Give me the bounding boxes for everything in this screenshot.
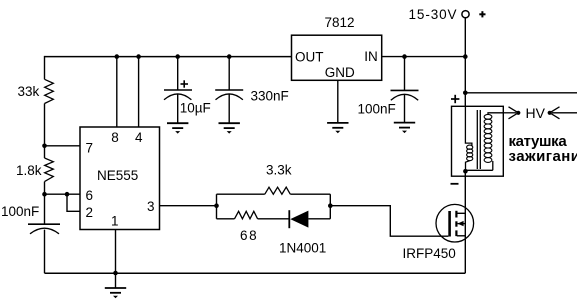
svg-text:1.8k: 1.8k	[16, 163, 42, 178]
pin 7 label	[86, 140, 94, 155]
ground (7812)	[327, 123, 348, 133]
svg-text:15-30V: 15-30V	[409, 7, 458, 22]
ground (100nF right)	[394, 123, 415, 134]
svg-text:10µF: 10µF	[180, 100, 211, 115]
transistor source link	[457, 235, 466, 237]
label 1.8k	[16, 163, 42, 178]
wire left vertical (top segment)	[44, 56, 46, 79]
transistor gate bar	[448, 211, 451, 237]
resistor R 1.8k	[45, 158, 54, 182]
HV arrow right (from edge)	[548, 107, 577, 119]
regulator U2 7812 box	[292, 35, 382, 80]
pin 2 label	[86, 205, 94, 220]
IC U1 NE555 box	[80, 127, 160, 230]
label 100nF (right)	[358, 102, 396, 117]
plus sign (supply)	[479, 11, 485, 17]
coil core lines	[477, 110, 480, 169]
label 7812	[325, 15, 355, 30]
label 33k	[18, 84, 40, 99]
svg-text:68: 68	[240, 228, 258, 243]
coil secondary top lead to HV	[488, 113, 503, 115]
wire upper branch right	[290, 193, 330, 195]
resistor R 33k	[45, 79, 54, 103]
wire parallel-network right vertical	[329, 194, 331, 219]
node pin6/left-rail junction	[42, 192, 47, 197]
wire left vertical (cap to bottom rail)	[44, 230, 46, 274]
label 10uF	[180, 100, 211, 115]
label 330nF	[251, 88, 289, 103]
svg-text:OUT: OUT	[295, 49, 324, 64]
svg-text:IN: IN	[364, 49, 378, 64]
coil primary winding	[467, 145, 473, 161]
wire left vertical (1.8k to cap)	[44, 182, 46, 225]
svg-text:3.3k: 3.3k	[266, 163, 292, 178]
wire gate path to MOSFET	[330, 206, 448, 237]
svg-text:NE555: NE555	[97, 168, 138, 183]
HV arrow left (from coil)	[503, 107, 520, 119]
svg-text:1N4001: 1N4001	[279, 240, 326, 255]
wire lower branch mid	[258, 218, 290, 220]
svg-text:3: 3	[147, 199, 155, 214]
wire left vertical (33k to pin7 node)	[44, 104, 46, 159]
transistor drain link	[457, 212, 466, 214]
svg-text:330nF: 330nF	[251, 88, 289, 103]
wire parallel-network left vertical	[216, 194, 218, 219]
svg-text:33k: 33k	[18, 84, 40, 99]
svg-text:1: 1	[111, 214, 119, 229]
node parallel-network right	[328, 203, 333, 208]
node branch junction	[463, 91, 468, 96]
node 330nF/top-rail junction	[227, 54, 232, 59]
wire NE555 pin 8 to top rail	[116, 57, 118, 127]
wire NE555 pin 4 to top rail	[138, 57, 140, 127]
node parallel-network left	[214, 203, 219, 208]
capacitor C 330nF	[215, 57, 243, 123]
node pin7/left-rail junction	[42, 144, 47, 149]
wire branch to right edge	[465, 92, 577, 94]
svg-text:100nF: 100nF	[1, 204, 39, 219]
node pin8/top-rail junction	[115, 54, 120, 59]
transistor body arrow	[457, 221, 465, 226]
node pin1/bottom-rail junction	[113, 271, 118, 276]
plus sign (coil)	[451, 95, 459, 103]
ground (330nF)	[219, 123, 240, 133]
label NE555	[97, 168, 138, 183]
label 1N4001	[279, 240, 326, 255]
ignition coil T1 box	[452, 106, 504, 176]
label 3.3k	[266, 163, 292, 178]
wire 7812 IN link	[382, 56, 466, 58]
wire lower branch left	[217, 218, 235, 220]
coil secondary winding	[484, 114, 492, 162]
wire lower branch right	[308, 218, 330, 220]
wire top rail	[45, 56, 293, 58]
node pin4/top-rail junction	[136, 54, 141, 59]
capacitor C 100nF (left, on NE555 pins 2/6)	[28, 224, 60, 234]
label GND	[325, 65, 355, 80]
label 100nF (left)	[1, 204, 39, 219]
svg-text:HV: HV	[526, 105, 546, 121]
svg-text:6: 6	[86, 188, 94, 203]
node 100nF/IN junction	[402, 54, 407, 59]
svg-text:GND: GND	[325, 65, 355, 80]
node coil bottom junction	[463, 169, 468, 174]
node IN/right-vertical junction	[463, 54, 468, 59]
wire NE555 pin 2 L-link	[67, 194, 80, 211]
svg-text:7: 7	[86, 140, 94, 155]
coil common bottom link	[466, 161, 493, 171]
node pin6/pin2 junction	[65, 192, 70, 197]
wire 7812 GND stub	[337, 80, 339, 122]
plus sign (10uF)	[181, 80, 189, 87]
transistor channel segments	[455, 211, 457, 236]
ground (10uF)	[167, 123, 188, 133]
label IRFP450	[403, 246, 456, 261]
svg-text:IRFP450: IRFP450	[403, 246, 456, 261]
transistor Q1 IRFP450 circle	[436, 204, 474, 242]
diode D 1N4001 (triangle, pointing left)	[290, 211, 308, 228]
label HV	[526, 105, 546, 121]
wire NE555 pin 7 to left rail	[45, 145, 81, 147]
pin 1 label	[111, 214, 119, 229]
wire upper branch left	[217, 193, 265, 195]
minus sign (coil)	[451, 183, 459, 185]
svg-text:2: 2	[86, 205, 94, 220]
pin 8 label	[111, 130, 119, 145]
svg-text:зажигания: зажигания	[509, 148, 577, 165]
wire coil exit to MOSFET drain	[464, 170, 466, 273]
terminal circle 15-30V	[462, 11, 469, 18]
label 68	[240, 228, 258, 243]
node 10uF/top-rail junction	[175, 54, 180, 59]
resistor R 3.3k	[265, 187, 291, 194]
capacitor C 10uF	[164, 57, 192, 123]
label IN	[364, 49, 378, 64]
wire NE555 pin 1 to bottom rail	[115, 230, 117, 274]
svg-text:100nF: 100nF	[358, 102, 396, 117]
capacitor C 100nF (right of 7812)	[391, 57, 419, 123]
diode D 1N4001 (cathode bar)	[288, 210, 290, 228]
label 15-30V	[409, 7, 458, 22]
wire NE555 pin 6 to left rail	[45, 193, 81, 195]
pin 4 label	[135, 130, 143, 145]
label катушка	[509, 133, 568, 150]
pin 3 label	[147, 199, 155, 214]
svg-text:4: 4	[135, 130, 143, 145]
pin 6 label	[86, 188, 94, 203]
coil primary feed (from top)	[465, 106, 472, 146]
resistor R 68	[235, 211, 258, 219]
ground (bottom rail)	[105, 273, 126, 298]
wire NE555 pin 3 output	[160, 205, 217, 207]
svg-text:8: 8	[111, 130, 119, 145]
wire bottom rail	[45, 272, 466, 274]
wire right vertical (terminal to coil)	[464, 18, 466, 142]
label зажигания	[509, 148, 577, 165]
label OUT	[295, 49, 324, 64]
svg-text:7812: 7812	[325, 15, 355, 30]
